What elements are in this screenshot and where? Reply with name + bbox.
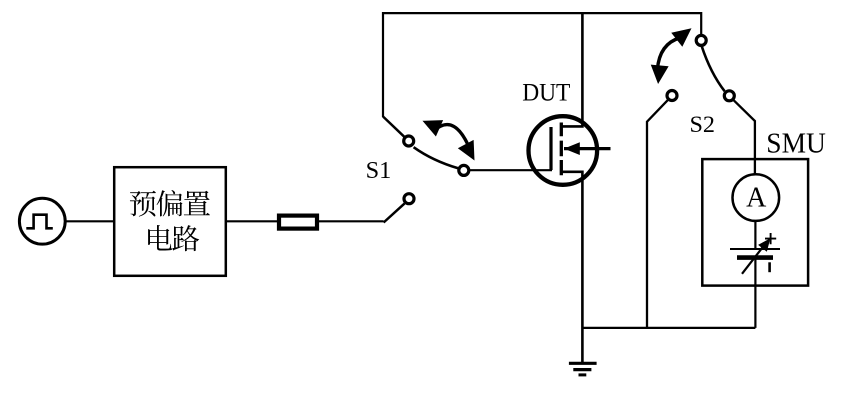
- svg-text:DUT: DUT: [522, 78, 570, 107]
- svg-text:S2: S2: [690, 112, 716, 137]
- svg-text:S1: S1: [366, 157, 392, 184]
- svg-text:SMU: SMU: [766, 128, 826, 160]
- svg-text:A: A: [746, 182, 767, 213]
